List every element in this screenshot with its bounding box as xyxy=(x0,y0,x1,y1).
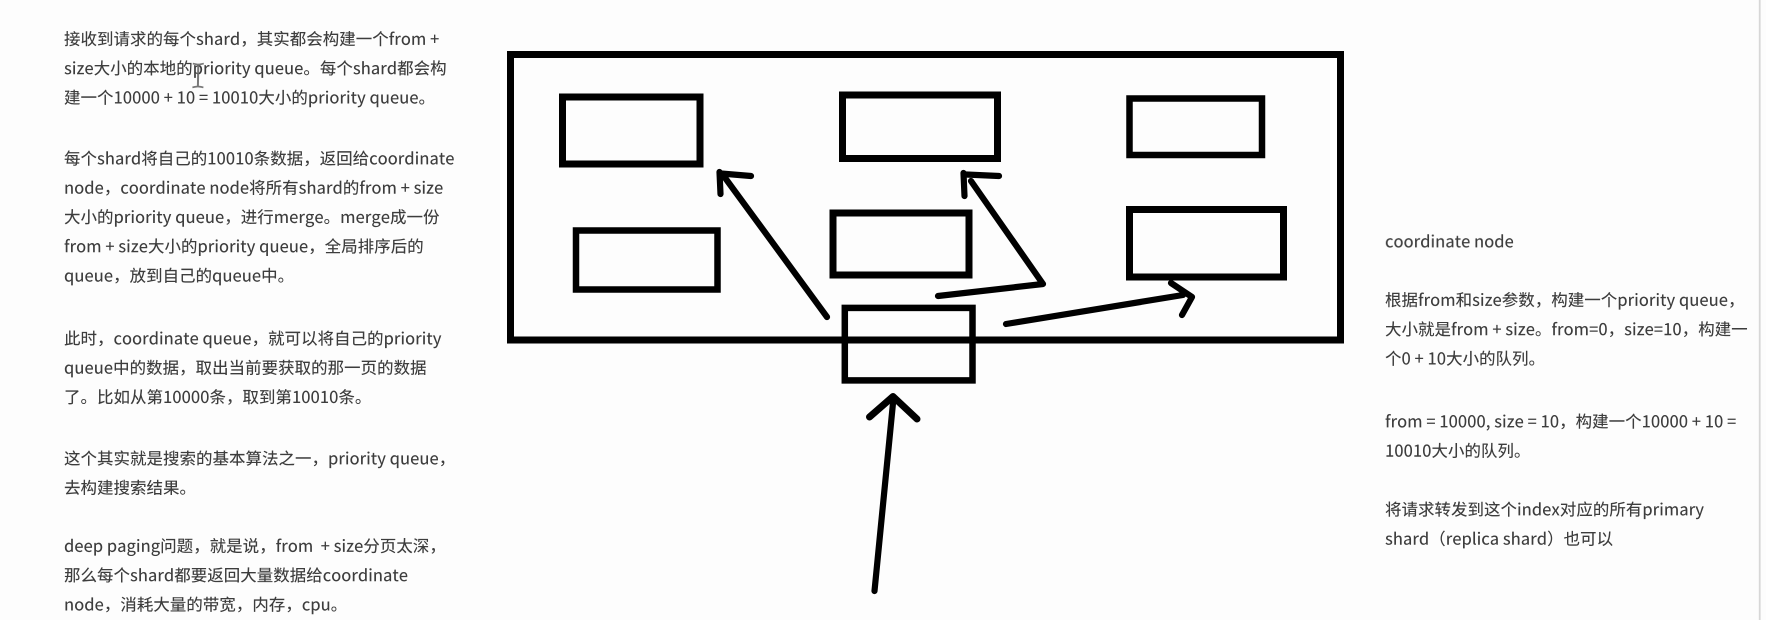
text left para2 line3 xyxy=(65,209,439,227)
coordinate node outer box xyxy=(511,55,1341,341)
text left para2 line4 xyxy=(65,238,423,256)
text right para1 line3 xyxy=(1386,351,1535,366)
text right para2 line2 xyxy=(1386,443,1519,458)
text left para2 line5 xyxy=(65,268,284,286)
text left para1 line3 xyxy=(65,90,425,108)
arrow 3 queue box to mid-right shard xyxy=(1006,283,1192,324)
shard box mid-right xyxy=(1130,210,1284,278)
arrow 1 queue box to top-left shard xyxy=(720,172,828,317)
label coordinate node xyxy=(1386,234,1513,247)
scrollbar edge line xyxy=(1759,0,1761,620)
shard box mid-center xyxy=(833,213,969,275)
text left para3 line3 xyxy=(66,389,361,405)
mouse text cursor I-beam xyxy=(192,64,203,88)
arrow 2 queue box to top-middle shard xyxy=(938,173,1043,296)
text left para5 line3 xyxy=(65,596,336,614)
text right para1 line1 xyxy=(1386,292,1734,310)
text left para3 line2 xyxy=(65,360,426,378)
queue box bottom-center xyxy=(845,308,973,381)
text left para1 line1 xyxy=(64,31,438,47)
text left para1 line2 xyxy=(64,60,445,78)
shard box top-middle xyxy=(843,95,998,159)
text right para3 line2 xyxy=(1385,531,1612,549)
text left para5 line2 xyxy=(65,567,408,582)
text left para2 line1 xyxy=(65,150,454,166)
shard box top-right xyxy=(1130,99,1263,156)
arrow 4 incoming request to queue box xyxy=(870,397,918,592)
text left para2 line2 xyxy=(65,180,442,196)
text right para3 line1 xyxy=(1386,501,1704,519)
text left para3 line1 xyxy=(65,330,442,348)
text right para1 line2 xyxy=(1386,321,1747,337)
shard box top-left xyxy=(563,97,701,164)
text left para4 line1 xyxy=(65,450,445,468)
text left para5 line1 xyxy=(65,538,435,556)
text right para2 line1 xyxy=(1386,413,1736,430)
shard box mid-left xyxy=(576,231,718,290)
text left para4 line2 xyxy=(65,480,185,495)
